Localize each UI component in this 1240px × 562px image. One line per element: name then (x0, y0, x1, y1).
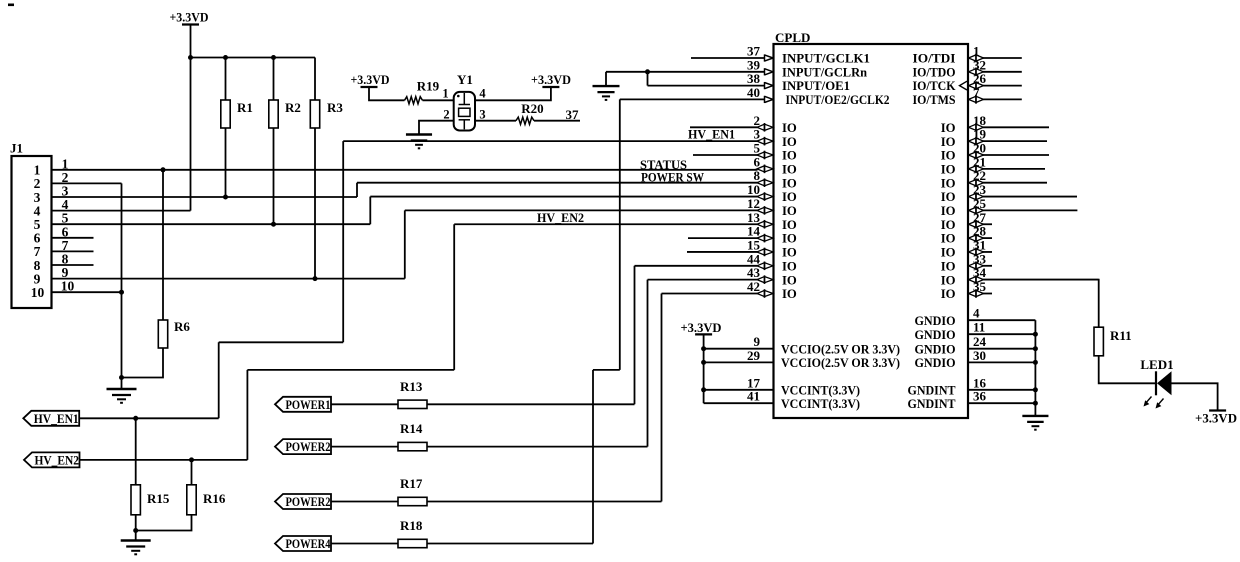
wire to CPLD pin12 (405, 209, 758, 211)
resistor R2 (269, 100, 278, 128)
svg-text:POWER SW: POWER SW (641, 171, 704, 185)
CPLD pin 3 arrow (757, 138, 765, 144)
svg-text:30: 30 (973, 348, 986, 363)
wire top rail (191, 57, 316, 59)
svg-text:GNDIO: GNDIO (915, 328, 956, 342)
svg-text:R15: R15 (147, 491, 170, 506)
svg-text:IO: IO (782, 162, 797, 176)
wire CPLD pin 7 stub (983, 98, 1022, 100)
wire CPLD pin 4 (GNDIO) (968, 319, 1035, 321)
LED1 light arrow 1 (1146, 397, 1152, 403)
svg-text:VCCINT(3.3V): VCCINT(3.3V) (781, 397, 860, 411)
wire CPLD pin 18 stub (983, 126, 1049, 128)
wire Y1 left supply (369, 87, 405, 100)
wire gnd stub (121, 378, 123, 390)
connector POWER1 (275, 397, 331, 412)
node J1pin1-R6 (161, 167, 166, 172)
wire CPLD pin 16 (GNDINT) (968, 389, 1035, 391)
svg-text:36: 36 (973, 389, 987, 404)
svg-text:IO: IO (782, 135, 797, 149)
svg-text:IO: IO (782, 259, 797, 273)
svg-text:26: 26 (973, 71, 987, 86)
node HV_EN2-R16 (189, 457, 194, 462)
svg-text:GNDINT: GNDINT (908, 383, 956, 397)
wire CPLD pin 41 (VCC) (704, 402, 774, 404)
svg-text:7: 7 (973, 85, 980, 100)
resistor R13 (398, 400, 427, 408)
node J1pin10 junction (119, 290, 124, 295)
svg-text:R11: R11 (1110, 328, 1132, 343)
wire pin39 gnd stub (605, 72, 607, 86)
svg-text:8: 8 (754, 168, 761, 183)
crystal Y1 (454, 92, 475, 131)
power +3.3VD (Y1 right) (542, 86, 559, 88)
resistor R6 (158, 320, 167, 348)
CPLD pin 42 arrow (757, 290, 765, 296)
svg-text:27: 27 (973, 210, 987, 225)
svg-text:IO/TCK: IO/TCK (913, 79, 956, 93)
wire J1 pin9 (52, 278, 405, 280)
svg-text:+3.3VD: +3.3VD (681, 320, 722, 335)
wire J1 pin7 stub (52, 250, 94, 252)
svg-text:33: 33 (973, 251, 987, 266)
svg-text:31: 31 (973, 237, 986, 252)
svg-text:VCCIO(2.5V OR 3.3V): VCCIO(2.5V OR 3.3V) (781, 342, 900, 356)
svg-text:IO: IO (782, 246, 797, 260)
wire HV_EN1 riser1 (218, 342, 220, 418)
svg-text:19: 19 (973, 127, 987, 142)
wire HV_EN1 horizontal (219, 341, 344, 343)
svg-text:+3.3VD: +3.3VD (351, 72, 390, 87)
svg-text:R18: R18 (400, 518, 423, 533)
CPLD pin 37 arrow (764, 54, 766, 61)
svg-text:GNDIO: GNDIO (915, 342, 956, 356)
ground (CPLD pin39) (593, 85, 620, 87)
node GNDINT 36 (1033, 401, 1038, 406)
connector HV_EN1 (23, 411, 79, 426)
wire R2 top lead (273, 58, 275, 101)
svg-text:IO: IO (941, 218, 956, 232)
CPLD pin 43 arrow (757, 277, 765, 283)
wire R1 top lead (225, 58, 227, 101)
wire POWER2 to R17 (331, 501, 398, 503)
svg-text:HV_EN2: HV_EN2 (35, 453, 80, 468)
wire POWER2 to R14 (331, 446, 398, 448)
wire to CPLD pin8 (POWER SW net) (357, 182, 758, 184)
svg-text:43: 43 (747, 265, 761, 280)
svg-text:VCCIO(2.5V OR 3.3V): VCCIO(2.5V OR 3.3V) (781, 356, 900, 370)
svg-text:INPUT/OE2/GCLK2: INPUT/OE2/GCLK2 (786, 93, 890, 107)
connector POWER2 (275, 439, 331, 454)
wire CPLD pin 20 stub (983, 154, 1049, 156)
wire CPLD pin 29 (VCC) (704, 361, 774, 363)
wire CPLD pin 25 stub (983, 209, 1077, 211)
resistor R17 (398, 497, 427, 505)
wire HV_EN1 riser2 (342, 141, 344, 342)
CPLD pin 34 arrow (969, 277, 977, 283)
resistor R11 (1094, 327, 1103, 356)
svg-text:28: 28 (973, 224, 987, 239)
wire CPLD pin 26 stub (983, 85, 1022, 87)
svg-text:IO: IO (782, 218, 797, 232)
wire CPLD pin 36 (GNDINT) (968, 402, 1035, 404)
wire CPLD pin 34 stub (983, 279, 1099, 281)
svg-text:42: 42 (747, 279, 760, 294)
CPLD pin 10 arrow (757, 193, 765, 199)
wire J1 pin2 vertical (121, 183, 123, 377)
svg-text:R3: R3 (327, 100, 343, 115)
CPLD pin26 clock mark (960, 81, 968, 90)
wire R6 bottom lead (122, 348, 164, 378)
CPLD pin 18 arrow (969, 124, 977, 130)
wire CPLD pin 30 (GNDIO) (968, 361, 1035, 363)
svg-text:14: 14 (747, 224, 761, 239)
connector HV_EN2 (24, 452, 80, 467)
wire CPLD pin5 stub (693, 154, 758, 156)
svg-text:+3.3VD: +3.3VD (1195, 411, 1237, 426)
CPLD pin 13 arrow (757, 221, 765, 227)
CPLD pin 39 arrow (764, 68, 766, 75)
svg-text:HV_EN2: HV_EN2 (537, 211, 584, 225)
CPLD pin 28 arrow (969, 235, 977, 241)
LED1 triangle (1157, 371, 1172, 395)
svg-text:IO: IO (941, 273, 956, 287)
svg-text:IO: IO (941, 162, 956, 176)
wire R13 riser (634, 266, 636, 405)
node GNDIO 24 (1033, 346, 1038, 351)
wire J1 pin5 riser (369, 197, 371, 225)
wire CPLD pin39 (606, 71, 765, 73)
wire HV_EN2 horizontal (247, 369, 454, 371)
node rail-R2 (271, 55, 276, 60)
node GNDIO 30 (1033, 360, 1038, 365)
svg-text:J1: J1 (10, 141, 23, 156)
wire to CPLD pin row y=280 (648, 279, 758, 281)
wire CPLD pin 11 (GNDIO) (968, 333, 1035, 335)
wire CPLD pin 23 stub (983, 196, 1077, 198)
wire pin38 drop (647, 72, 649, 86)
wire CPLD pin2 stub (690, 126, 758, 128)
node rail-R1 (223, 55, 228, 60)
node GNDIO 11 (1033, 332, 1038, 337)
ground (J1 area) (107, 388, 137, 390)
resistor R18 (398, 539, 427, 547)
svg-text:IO: IO (782, 287, 797, 301)
svg-text:15: 15 (747, 237, 761, 252)
power +3.3VD (LED) (1209, 409, 1226, 411)
wire to CPLD pin13 (HV_EN2 net) (454, 223, 757, 225)
svg-text:POWER4: POWER4 (286, 536, 331, 551)
svg-text:13: 13 (747, 210, 761, 225)
svg-text:R20: R20 (521, 101, 543, 116)
wire CPLD pin 32 stub (983, 71, 1022, 73)
connector POWER2 (275, 494, 331, 509)
wire J1 pin1 to CPLD pin6 (STATUS net) (52, 169, 758, 171)
CPLD pin 22 arrow (969, 180, 977, 186)
CPLD pin 1 arrow (969, 55, 977, 61)
wire to CPLD pin row y=266 (635, 265, 758, 267)
CPLD pin 21 arrow (969, 166, 977, 172)
svg-text:32: 32 (973, 57, 986, 72)
resistor R1 (221, 100, 230, 128)
CPLD pin 5 arrow (757, 152, 765, 158)
wire CPLD pin38 (648, 85, 765, 87)
wire R15 bottom lead (135, 515, 137, 541)
CPLD pin 44 arrow (757, 263, 765, 269)
svg-text:10: 10 (747, 182, 760, 197)
wire R19 to Y1 pin1 (423, 99, 454, 101)
svg-text:IO: IO (782, 121, 797, 135)
svg-text:21: 21 (973, 154, 986, 169)
wire R17 out (427, 501, 662, 503)
node rail-supply (188, 55, 193, 60)
wire +3.3VD stem (190, 25, 192, 58)
svg-text:IO: IO (782, 204, 797, 218)
svg-text:IO: IO (941, 259, 956, 273)
svg-text:25: 25 (973, 196, 987, 211)
svg-text:IO: IO (941, 176, 956, 190)
CPLD pin 23 arrow (969, 193, 977, 199)
ground (CPLD) (1022, 415, 1048, 417)
node R6-gnd junction (119, 375, 124, 380)
resistor R3 (310, 100, 319, 128)
svg-text:29: 29 (747, 348, 761, 363)
svg-text:IO: IO (941, 149, 956, 163)
wire to CPLD pin40 (620, 98, 764, 100)
wire POWER4 to R18 (331, 543, 398, 545)
wire CPLD pin34 to R11 (983, 280, 1099, 328)
wire J1 pin8 stub (52, 264, 94, 266)
node GNDINT 16 (1033, 387, 1038, 392)
svg-text:IO: IO (941, 121, 956, 135)
wire to CPLD pin3 (HV_EN1 net) (343, 140, 757, 142)
svg-text:IO: IO (782, 232, 797, 246)
wire R17 riser (661, 294, 663, 502)
svg-text:R19: R19 (417, 79, 440, 94)
CPLD pin 38 arrow (764, 82, 766, 89)
LED1 cathode bar (1155, 371, 1157, 395)
LED1 light arrow 2 (1158, 399, 1164, 405)
wire CPLD pin 31 stub (983, 251, 992, 253)
svg-text:POWER1: POWER1 (286, 397, 331, 412)
node R2-J1pin5 (271, 222, 276, 227)
resistor R15 (131, 485, 140, 515)
svg-text:IO: IO (782, 190, 797, 204)
wire R6 top lead (162, 170, 164, 320)
wire VCC bus vertical (703, 334, 705, 403)
svg-text:2: 2 (754, 113, 761, 128)
svg-text:INPUT/GCLK1: INPUT/GCLK1 (782, 52, 870, 66)
wire R14 riser (647, 280, 649, 447)
svg-text:GNDIO: GNDIO (915, 314, 956, 328)
wire to CPLD pin row y=294 (662, 293, 758, 295)
svg-text:4: 4 (479, 87, 486, 101)
svg-text:10: 10 (31, 285, 45, 300)
resistor R16 (187, 485, 196, 515)
svg-text:R2: R2 (285, 100, 301, 115)
wire CPLD pin 22 stub (983, 182, 1047, 184)
svg-text:18: 18 (973, 113, 987, 128)
svg-text:R17: R17 (400, 476, 423, 491)
svg-text:IO/TDO: IO/TDO (913, 65, 956, 79)
wire GNDIO bus vertical (1034, 320, 1036, 416)
svg-text:IO: IO (941, 246, 956, 260)
wire Y1 pin3 (475, 120, 516, 122)
wire CPLD pin 28 stub (983, 237, 992, 239)
svg-text:+3.3VD: +3.3VD (531, 72, 571, 87)
wire HV_EN1 (79, 417, 219, 419)
resistor R14 (398, 442, 427, 450)
wire CPLD pin 33 stub (983, 265, 992, 267)
svg-text:IO: IO (782, 149, 797, 163)
svg-text:R13: R13 (400, 379, 423, 394)
svg-text:1: 1 (442, 87, 448, 101)
wire R11 to LED (1099, 356, 1155, 384)
svg-text:IO: IO (782, 273, 797, 287)
svg-text:+3.3VD: +3.3VD (170, 10, 209, 25)
wire R18 jog (593, 369, 620, 371)
wire +3.3VD to J1 pin4 (190, 58, 192, 211)
svg-text:HV_EN1: HV_EN1 (34, 411, 79, 426)
svg-text:GNDINT: GNDINT (908, 397, 956, 411)
wire CPLD pin 17 (VCC) (704, 389, 774, 391)
svg-text:3: 3 (479, 108, 485, 122)
svg-text:INPUT/GCLRn: INPUT/GCLRn (782, 65, 867, 79)
svg-text:44: 44 (747, 251, 761, 266)
CPLD pin 32 arrow (969, 69, 977, 75)
svg-text:HV_EN1: HV_EN1 (688, 128, 735, 142)
wire Y1 pin2 to gnd (419, 121, 454, 135)
svg-text:CPLD: CPLD (775, 30, 810, 45)
wire CPLD pin 19 stub (983, 140, 1047, 142)
svg-text:POWER2: POWER2 (286, 439, 331, 454)
node pin39-pin38 (645, 69, 650, 74)
wire J1 pin6 stub (52, 237, 94, 239)
CPLD pin 19 arrow (969, 138, 977, 144)
svg-text:POWER2: POWER2 (286, 494, 331, 509)
wire R20 to net 37 (534, 120, 580, 122)
wire J1 pin10 stub (52, 291, 122, 293)
wire J1 pin3 riser (356, 183, 358, 197)
ground (Y1) (406, 133, 432, 135)
svg-text:IO: IO (941, 135, 956, 149)
wire HV_EN2 (80, 459, 248, 461)
svg-text:39: 39 (747, 57, 761, 72)
svg-text:22: 22 (973, 168, 986, 183)
svg-text:40: 40 (747, 85, 760, 100)
wire CPLD pin 35 stub (983, 293, 992, 295)
CPLD pin 40 arrow (764, 96, 766, 103)
node VCC 29 (701, 360, 706, 365)
CPLD U1 box (774, 44, 969, 418)
CPLD pin 27 arrow (969, 221, 977, 227)
CPLD pin 35 arrow (969, 290, 977, 296)
svg-text:12: 12 (747, 196, 760, 211)
svg-text:41: 41 (747, 389, 760, 404)
wire CPLD pin 27 stub (983, 223, 992, 225)
svg-text:11: 11 (973, 320, 985, 335)
wire R13 out (427, 403, 635, 405)
wire J1 pin5 (52, 223, 371, 225)
wire HV_EN2 riser1 (246, 370, 248, 460)
wire R1 bottom lead (225, 128, 227, 197)
svg-text:35: 35 (973, 279, 987, 294)
CPLD pin 33 arrow (969, 263, 977, 269)
wire J1 pin4 (+3.3VD) (52, 210, 191, 212)
CPLD pin 20 arrow (969, 152, 977, 158)
wire CPLD pin 24 (GNDIO) (968, 348, 1035, 350)
wire J1 pin9 riser (404, 210, 406, 278)
CPLD pin 25 arrow (969, 207, 977, 213)
svg-text:GNDIO: GNDIO (915, 356, 956, 370)
resistor R20 (516, 117, 534, 124)
wire R18 riser (592, 370, 594, 544)
svg-text:IO: IO (941, 287, 956, 301)
svg-text:4: 4 (973, 306, 980, 321)
node VCC 9 (701, 346, 706, 351)
svg-text:IO: IO (782, 176, 797, 190)
wire Y1 pin4 to +3.3VD (475, 87, 551, 100)
svg-text:Y1: Y1 (457, 72, 473, 87)
svg-text:37: 37 (747, 44, 761, 59)
svg-text:6: 6 (754, 154, 761, 169)
crystal Y1 internals (463, 93, 465, 105)
svg-text:R6: R6 (174, 319, 190, 334)
connector J1 (12, 156, 52, 308)
svg-text:IO: IO (941, 204, 956, 218)
CPLD pin 14 arrow (757, 235, 765, 241)
wire R18 out (427, 543, 593, 545)
node R1-J1pin3 (223, 195, 228, 200)
wire to CPLD pin10 (370, 196, 757, 198)
wire HV_EN2 riser2 (453, 224, 455, 370)
svg-text:34: 34 (973, 265, 987, 280)
CPLD pin 31 arrow (969, 249, 977, 255)
svg-text:20: 20 (973, 141, 986, 156)
wire R18 riser2 (619, 99, 621, 370)
wire R15 top lead (135, 418, 137, 485)
svg-text:R16: R16 (203, 491, 226, 506)
CPLD pin 2 arrow (757, 124, 765, 130)
wire R2 bottom lead (273, 128, 275, 224)
svg-text:LED1: LED1 (1140, 357, 1173, 372)
svg-text:1: 1 (973, 44, 980, 59)
wire J1 pin3 (52, 196, 358, 198)
svg-text:INPUT/OE1: INPUT/OE1 (782, 79, 850, 93)
wire R16 top lead (191, 460, 193, 485)
svg-text:R1: R1 (237, 100, 253, 115)
stray mark top-left (8, 4, 14, 7)
wire CPLD pin14 stub (688, 237, 758, 239)
svg-text:R14: R14 (400, 421, 423, 436)
ground (R15/R16) (121, 539, 151, 541)
wire R3 bottom lead (314, 128, 316, 279)
wire R14 out (427, 446, 648, 448)
CPLD pin 8 arrow (757, 180, 765, 186)
wire CPLD pin 9 (VCC) (704, 348, 774, 350)
svg-text:IO/TMS: IO/TMS (913, 93, 956, 107)
node R15-R16 gnd (133, 528, 138, 533)
wire CPLD pin 1 stub (983, 57, 1022, 59)
CPLD pin 26 arrow (969, 83, 977, 89)
CPLD pin 7 arrow (969, 96, 977, 102)
wire CPLD pin15 stub (687, 251, 758, 253)
wire R3 top lead (314, 58, 316, 101)
CPLD pin 12 arrow (757, 207, 765, 213)
svg-text:5: 5 (754, 141, 761, 156)
svg-text:IO/TDI: IO/TDI (913, 52, 956, 66)
CPLD pin 6 arrow (757, 166, 765, 172)
